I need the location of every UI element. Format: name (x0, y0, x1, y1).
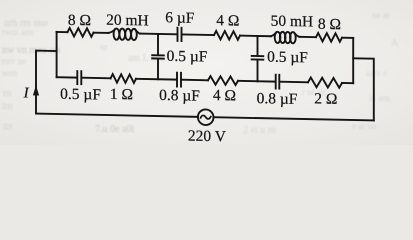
svg-text:4 Ω: 4 Ω (216, 12, 239, 29)
svg-text:220 V: 220 V (188, 128, 227, 145)
svg-text:iu arn: iu arn (369, 93, 390, 103)
svg-text:vr: vr (100, 42, 108, 52)
svg-text:2 ei u rn: 2 ei u rn (243, 125, 276, 136)
svg-text:ne ar: ne ar (372, 10, 390, 20)
svg-text:6 µF: 6 µF (165, 9, 195, 27)
svg-text:aars e: aars e (366, 68, 387, 78)
svg-text:7.u 0e a0i: 7.u 0e a0i (95, 124, 134, 135)
svg-text:wen: wen (2, 68, 17, 78)
svg-text:0.8 µF: 0.8 µF (159, 87, 200, 105)
svg-text:4 Ω: 4 Ω (213, 87, 236, 104)
svg-text:e ar no: e ar no (352, 121, 377, 131)
svg-text:I: I (23, 85, 30, 101)
svg-text:im: im (2, 101, 13, 112)
svg-text:rwm aen: rwm aen (2, 27, 34, 37)
svg-text:mrv ne: mrv ne (1, 56, 26, 66)
svg-text:8 Ω: 8 Ω (68, 12, 91, 29)
svg-text:0.8 µF: 0.8 µF (257, 90, 298, 108)
svg-text:2 Ω: 2 Ω (314, 90, 337, 107)
svg-text:rn: rn (3, 88, 11, 99)
svg-text:A: A (391, 38, 399, 49)
svg-text:8 Ω: 8 Ω (318, 16, 341, 33)
svg-text:0.5 µF: 0.5 µF (267, 49, 308, 67)
svg-text:0.5 µF: 0.5 µF (60, 86, 101, 104)
svg-text:50 mH: 50 mH (271, 13, 314, 31)
svg-text:0.5 µF: 0.5 µF (167, 48, 208, 66)
svg-text:20 mH: 20 mH (106, 12, 149, 30)
svg-text:1 Ω: 1 Ω (110, 86, 133, 103)
svg-text:nv: nv (3, 121, 13, 132)
